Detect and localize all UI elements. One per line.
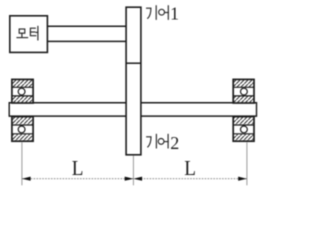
bearing left lower block xyxy=(12,117,33,142)
lower shaft lower line (right of gear) xyxy=(141,115,257,117)
label 기어1 (gear 1) xyxy=(147,6,169,19)
bearing right upper block xyxy=(233,79,254,103)
arrow left (points left) xyxy=(22,177,31,181)
svg-text:2: 2 xyxy=(170,133,179,153)
wire: motor shaft lower line xyxy=(47,40,126,42)
arrow middle-left (points right) xyxy=(125,177,134,181)
label L right xyxy=(184,157,196,180)
arrow middle-right (points left) xyxy=(133,177,142,181)
motor box xyxy=(10,16,48,53)
extension line left xyxy=(21,142,23,185)
extension line right xyxy=(246,142,248,185)
lower shaft upper line (right of gear) xyxy=(141,102,257,104)
wire: motor shaft upper line xyxy=(47,25,126,27)
extension line middle xyxy=(132,156,134,186)
arrow right (points right) xyxy=(238,177,247,181)
gear divider line xyxy=(126,62,141,64)
svg-text:1: 1 xyxy=(170,3,179,23)
lower shaft left end cap xyxy=(8,102,10,117)
svg-text:L: L xyxy=(184,157,196,180)
label 모터 (motor) xyxy=(17,26,38,40)
label L left xyxy=(72,157,84,180)
svg-text:L: L xyxy=(72,157,84,180)
lower shaft right end cap xyxy=(256,102,258,117)
dimension line xyxy=(22,178,247,180)
lower shaft upper line (left of gear) xyxy=(9,102,126,104)
gear column (gear 1 over gear 2) xyxy=(126,7,141,155)
bearing left upper block xyxy=(12,79,33,103)
label 기어2 (gear 2) xyxy=(147,134,168,148)
lower shaft lower line (left of gear) xyxy=(9,115,126,117)
bearing right lower block xyxy=(233,117,254,142)
